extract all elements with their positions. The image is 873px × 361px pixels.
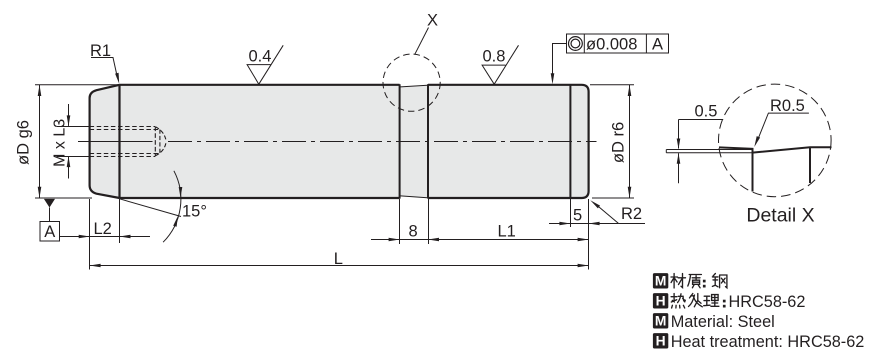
svg-text:A: A <box>652 36 663 54</box>
shaft outline left chamfered end (bold) <box>90 85 120 198</box>
groove right wall <box>427 84 429 198</box>
svg-text:M: M <box>655 314 667 329</box>
zh char re4 (heat) <box>671 294 685 309</box>
L1 dimension line <box>428 239 589 241</box>
svg-text:5: 5 <box>573 206 582 224</box>
svg-text:Heat treatment: HRC58-62: Heat treatment: HRC58-62 <box>671 333 865 351</box>
svg-text:L: L <box>334 250 343 268</box>
L2 dimension line <box>60 236 151 238</box>
M x L3 extension lines <box>57 126 90 128</box>
svg-text:R2: R2 <box>621 205 642 223</box>
R2 leader <box>599 207 645 224</box>
chamfer extension line down <box>119 199 121 243</box>
note row 3: M material en <box>653 313 668 328</box>
R0.5 leader <box>757 113 809 141</box>
detail thin extension lines (0.5 step) <box>666 149 752 151</box>
detail surface line (bold) <box>719 147 753 191</box>
L dimension line <box>90 265 589 267</box>
svg-text:øD g6: øD g6 <box>15 120 33 165</box>
X leader <box>415 28 429 55</box>
note row 1: M material zh <box>653 273 668 288</box>
svg-text:L1: L1 <box>498 222 516 240</box>
surface finish 0.4 symbol <box>247 45 283 84</box>
note row 2: H heat zh <box>653 293 668 308</box>
svg-text:Material: Steel: Material: Steel <box>671 313 775 331</box>
right edge extension line down <box>588 199 590 270</box>
detail X circle <box>719 84 832 197</box>
detail groove bottom (bold) <box>753 147 832 183</box>
oD r6 dimension line <box>629 85 631 198</box>
oD g6 dimension line <box>39 85 41 198</box>
shaft body fill <box>90 85 589 198</box>
zh char li3 (process) <box>704 295 719 307</box>
svg-text:0.8: 0.8 <box>483 47 506 65</box>
zh char zhi4 (quality) <box>688 275 702 288</box>
svg-text:R0.5: R0.5 <box>770 97 805 115</box>
note row 4: H heat en <box>653 333 668 348</box>
datum A triangle <box>44 199 55 208</box>
svg-text:0.5: 0.5 <box>695 103 718 121</box>
groove left wall <box>399 84 401 198</box>
15 deg chamfer angle line <box>120 199 182 217</box>
zh char gang1 (steel) <box>712 274 727 288</box>
zh char chu4 (treat) <box>689 294 703 307</box>
centerline <box>78 141 153 143</box>
15 deg arc <box>163 171 181 242</box>
svg-text:L2: L2 <box>94 220 112 238</box>
svg-text:0.4: 0.4 <box>249 48 272 66</box>
R1 leader <box>91 58 118 79</box>
svg-text:M: M <box>655 274 667 289</box>
8 dimension left arrow <box>371 239 428 241</box>
threaded hole inner dashed lines <box>90 129 160 131</box>
end band extension line down <box>570 199 572 227</box>
svg-text:X: X <box>427 12 438 30</box>
concentricity symbol <box>569 37 583 51</box>
5 dimension arrows <box>549 223 589 225</box>
groove top relief slant <box>401 85 428 87</box>
zh char cai2 (material) <box>671 274 686 289</box>
datum A box <box>40 222 60 242</box>
drill tip dome dashed <box>155 127 166 156</box>
svg-text:H: H <box>656 294 666 309</box>
groove extension lines down <box>399 199 401 244</box>
svg-text:A: A <box>44 223 55 241</box>
feature control frame leader <box>553 44 567 74</box>
M x L3 dimension arrows <box>68 104 70 126</box>
groove bottom relief slant <box>401 196 428 198</box>
svg-text:ø0.008: ø0.008 <box>586 36 637 54</box>
thread end cap dashed <box>154 127 156 157</box>
shaft top edge (bold) <box>120 85 589 198</box>
svg-text:HRC58-62: HRC58-62 <box>729 293 806 311</box>
svg-text:15°: 15° <box>182 203 207 221</box>
oD g6 extension lines <box>35 84 118 86</box>
svg-text:8: 8 <box>409 222 418 240</box>
svg-text:M x L3: M x L3 <box>52 119 69 167</box>
svg-text:Detail X: Detail X <box>746 205 814 227</box>
oD r6 extension lines <box>590 84 634 86</box>
end band line (5 wide) <box>569 84 571 198</box>
threaded hole outer dashed lines <box>90 126 155 128</box>
feature control frame box <box>567 34 669 53</box>
left edge extension line down <box>89 199 91 270</box>
chamfer edge vertical line <box>118 84 120 198</box>
surface finish 0.8 symbol <box>482 45 518 84</box>
svg-text:H: H <box>656 334 666 349</box>
svg-text:øD r6: øD r6 <box>610 122 628 163</box>
detail circle X on shaft <box>383 54 440 111</box>
